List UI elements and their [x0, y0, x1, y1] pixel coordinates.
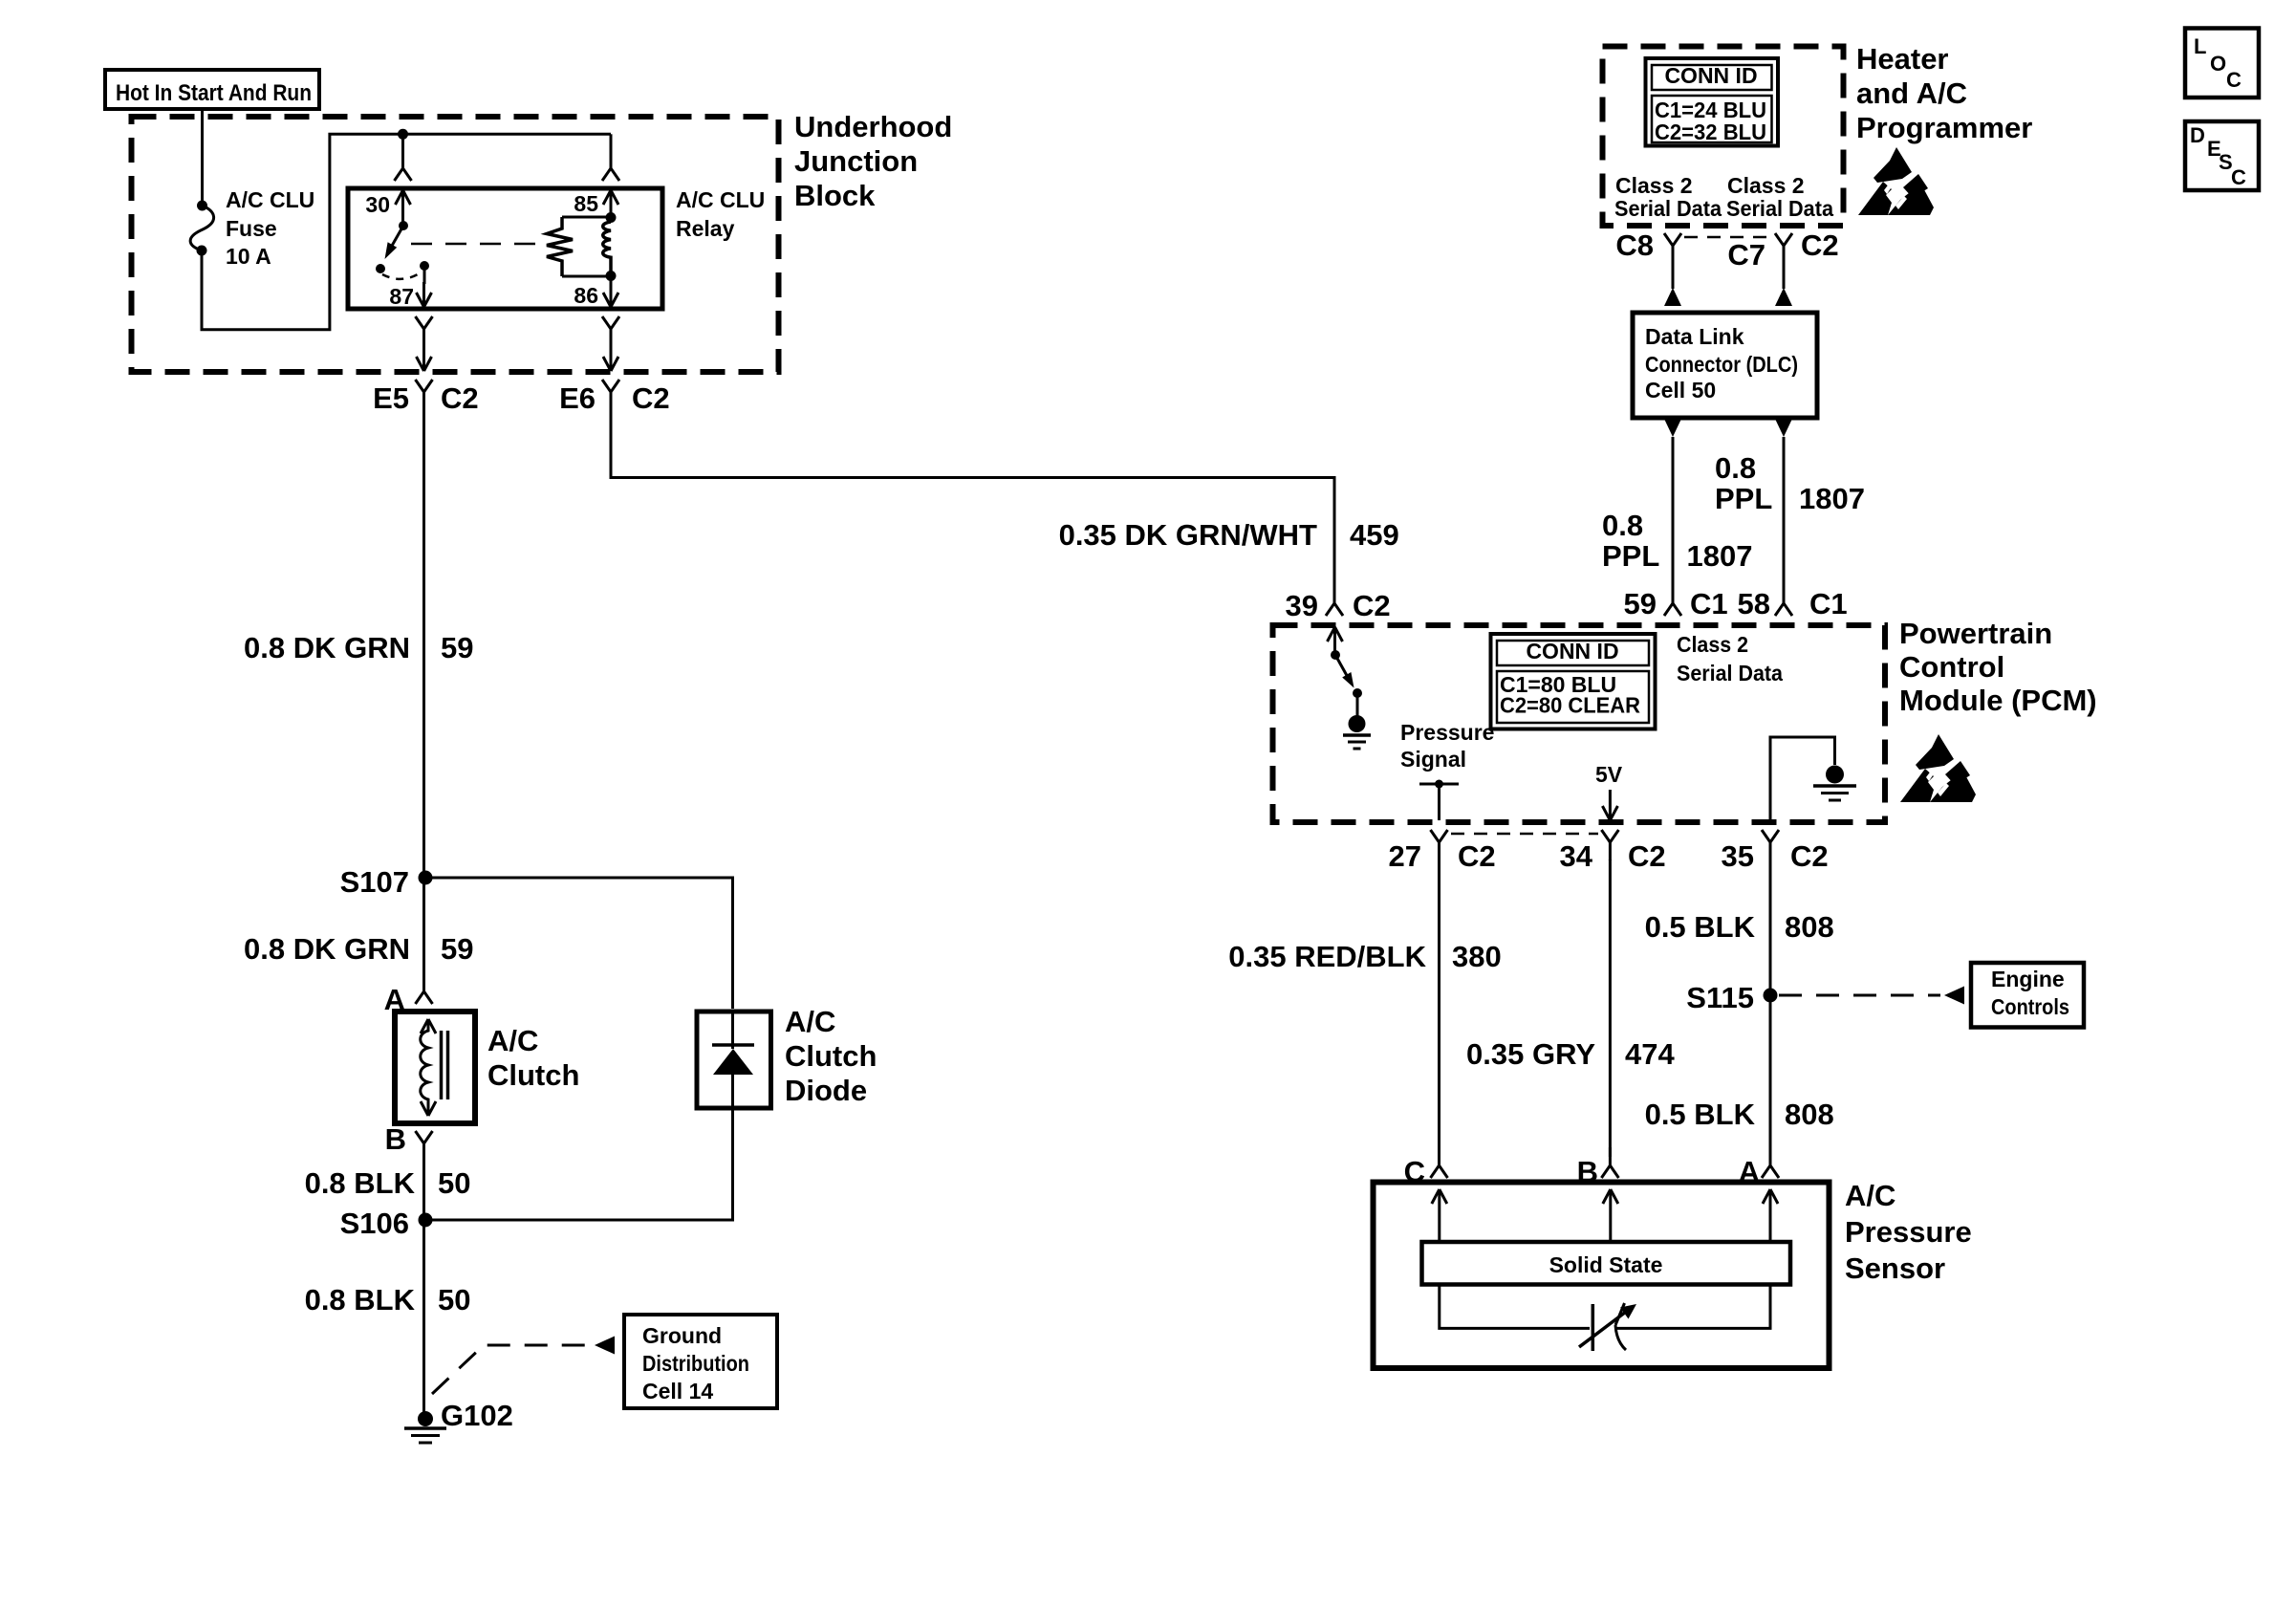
svg-text:Block: Block: [794, 179, 876, 212]
PCM pin 39 arrow: [1328, 627, 1343, 656]
connector C7/C2 glyph: [1727, 228, 1838, 272]
relay coil to pin86 wire: [610, 273, 613, 307]
label Powertrain Control Module (PCM): [1899, 617, 2097, 717]
svg-text:58: 58: [1738, 587, 1770, 620]
wire pin 86 to connector E6: [610, 347, 613, 358]
Data Link Connector box: [1633, 313, 1817, 418]
PCM pressure signal pin: [1419, 780, 1459, 821]
svg-text:380: 380: [1452, 940, 1502, 973]
svg-text:A/C: A/C: [1845, 1179, 1895, 1212]
svg-text:808: 808: [1785, 910, 1834, 944]
svg-text:Serial Data: Serial Data: [1677, 661, 1783, 685]
relay pin 30 arrow: [396, 190, 411, 226]
svg-text:Solid State: Solid State: [1549, 1252, 1663, 1277]
connector 59 C1 glyph: [1624, 585, 1728, 620]
svg-text:C2=32 BLU: C2=32 BLU: [1655, 120, 1766, 144]
svg-text:C2: C2: [1801, 228, 1839, 262]
connector arrow at junction block boundary (E6): [603, 350, 618, 371]
svg-text:C7: C7: [1727, 238, 1765, 272]
label E5 C2: [373, 381, 479, 415]
splice S107: [340, 865, 433, 899]
svg-text:Pressure: Pressure: [1400, 720, 1494, 745]
svg-text:0.8 BLK: 0.8 BLK: [305, 1166, 416, 1200]
svg-text:474: 474: [1625, 1037, 1675, 1071]
label A/C Clutch: [487, 1024, 579, 1092]
clutch pin B glyph: [385, 1122, 433, 1162]
connector E6 C2 glyph: [602, 380, 619, 410]
label Class 2 Serial Data (programmer left): [1614, 173, 1722, 221]
label Class 2 Serial Data (programmer right): [1726, 173, 1833, 221]
svg-text:C: C: [2226, 68, 2242, 92]
wire C8 to DLC: [1664, 264, 1681, 306]
svg-text:C2: C2: [1353, 589, 1391, 622]
svg-text:Module (PCM): Module (PCM): [1899, 684, 2097, 717]
wire 459 (E6 to PCM pin 39): [611, 393, 1334, 602]
PCM 5V output wire: [1602, 790, 1617, 820]
svg-text:Connector (DLC): Connector (DLC): [1645, 352, 1798, 377]
relay pin 85 arrow: [603, 190, 618, 219]
Engine Controls box: [1971, 963, 2084, 1028]
sensor pin A glyph: [1739, 1147, 1779, 1188]
svg-text:Class 2: Class 2: [1727, 173, 1805, 198]
svg-text:0.5 BLK: 0.5 BLK: [1645, 1098, 1756, 1131]
svg-text:E6: E6: [559, 381, 596, 415]
svg-text:0.35 RED/BLK: 0.35 RED/BLK: [1228, 940, 1426, 973]
svg-text:Data Link: Data Link: [1645, 324, 1744, 349]
svg-text:C2=80 CLEAR: C2=80 CLEAR: [1500, 693, 1640, 718]
sensor pin C glyph: [1404, 1147, 1448, 1188]
label 0.35 GRY 474: [1466, 1037, 1675, 1071]
junction node on feed rail: [398, 129, 408, 140]
DLC output arrowheads: [1664, 419, 1792, 437]
wire 1807 (DLC to PCM 58): [1783, 437, 1786, 585]
label 0.8 PPL 1807 (left): [1602, 509, 1752, 573]
label A/C CLU Fuse 10 A: [226, 187, 314, 269]
svg-text:0.8: 0.8: [1715, 451, 1756, 485]
fuse F (A/C CLU Fuse 10 A) symbol: [190, 201, 213, 256]
svg-text:S115: S115: [1686, 981, 1754, 1014]
connector 34 C2 glyph: [1560, 830, 1666, 873]
svg-text:CONN ID: CONN ID: [1664, 63, 1757, 88]
connector gang dashes C8-C7: [1684, 236, 1772, 239]
dashed reference arrow to Engine Controls: [1779, 987, 1964, 1005]
relay switch arm (30 to 87): [376, 221, 429, 273]
svg-text:0.8 DK GRN: 0.8 DK GRN: [244, 932, 410, 966]
svg-text:39: 39: [1286, 589, 1318, 622]
svg-text:Relay: Relay: [676, 216, 735, 241]
wire C7 to DLC: [1775, 264, 1792, 306]
ground G102: [404, 1399, 513, 1443]
svg-text:Controls: Controls: [1991, 994, 2069, 1019]
label A/C Clutch Diode: [785, 1005, 877, 1107]
svg-text:Pressure: Pressure: [1845, 1215, 1972, 1249]
svg-text:27: 27: [1389, 839, 1421, 873]
connector C8 glyph: [1615, 228, 1681, 264]
label 5V: [1595, 762, 1623, 787]
dashed reference arrow to Ground Distribution: [432, 1337, 615, 1395]
Solid State box: [1422, 1242, 1791, 1285]
svg-text:C1: C1: [1809, 587, 1848, 620]
wire S106 to clutch diode return: [432, 1108, 733, 1220]
svg-text:Fuse: Fuse: [226, 216, 277, 241]
label A/C Pressure Sensor: [1845, 1179, 1972, 1285]
A/C Clutch box: [395, 1012, 475, 1123]
svg-text:S106: S106: [340, 1207, 409, 1240]
sensor pin C internal arrow: [1432, 1189, 1447, 1242]
svg-text:Serial Data: Serial Data: [1614, 196, 1722, 221]
svg-text:Sensor: Sensor: [1845, 1251, 1945, 1285]
svg-text:35: 35: [1722, 839, 1754, 873]
svg-text:Distribution: Distribution: [642, 1351, 749, 1376]
relay coil winding: [603, 222, 611, 273]
label A/C CLU Relay: [676, 187, 765, 241]
svg-text:0.35 DK GRN/WHT: 0.35 DK GRN/WHT: [1059, 518, 1317, 552]
svg-text:A/C: A/C: [487, 1024, 538, 1057]
connector 58 C1 glyph: [1738, 585, 1848, 620]
connector 35 C2 glyph: [1722, 830, 1829, 873]
wire 808 (PCM 35 to sensor A): [1769, 859, 1772, 1157]
relay switch travel arc (dashed): [382, 272, 422, 279]
svg-text:Heater: Heater: [1856, 42, 1949, 76]
svg-text:S107: S107: [340, 865, 409, 899]
PCM CONN ID table: [1491, 634, 1656, 729]
PCM A/C request switch: [1331, 650, 1362, 716]
svg-text:0.8: 0.8: [1602, 509, 1643, 542]
svg-text:and A/C: and A/C: [1856, 76, 1967, 110]
wire 50 (clutch B to S106 to G102): [422, 1162, 425, 1413]
label 0.35 RED/BLK 380: [1228, 940, 1501, 973]
programmer CONN ID table: [1646, 58, 1779, 146]
svg-text:A/C CLU: A/C CLU: [226, 187, 314, 212]
sensor pin B internal arrow: [1603, 1189, 1618, 1242]
pin label 85: [574, 191, 598, 216]
svg-text:C2: C2: [441, 381, 479, 415]
svg-text:30: 30: [365, 192, 390, 217]
svg-text:Ground: Ground: [642, 1323, 722, 1348]
relay coil junction dots: [606, 212, 617, 281]
svg-text:B: B: [385, 1122, 406, 1156]
svg-text:Powertrain: Powertrain: [1899, 617, 2052, 650]
label Pressure Signal: [1400, 720, 1494, 772]
A/C Clutch Diode box: [697, 1012, 771, 1108]
PCM internal ground (right): [1813, 766, 1856, 801]
svg-text:1807: 1807: [1687, 539, 1753, 573]
svg-text:Control: Control: [1899, 650, 2004, 684]
wire S107 to A/C clutch diode: [432, 878, 733, 1009]
svg-text:Diode: Diode: [785, 1074, 867, 1107]
label 0.8 PPL 1807 (right): [1715, 451, 1865, 515]
svg-text:0.5 BLK: 0.5 BLK: [1645, 910, 1756, 944]
power feed box 'Hot In Start And Run': [105, 70, 319, 109]
svg-text:Clutch: Clutch: [785, 1039, 877, 1073]
variable transducer symbol: [1579, 1303, 1636, 1351]
label 0.5 BLK 808 (upper): [1645, 910, 1834, 944]
svg-text:A/C: A/C: [785, 1005, 835, 1038]
svg-text:G102: G102: [441, 1399, 513, 1432]
wire pin 87 to connector E5: [422, 347, 425, 358]
svg-text:Clutch: Clutch: [487, 1058, 579, 1092]
label 0.5 BLK 808 (lower): [1645, 1098, 1834, 1131]
connector arrow at junction block boundary (E5): [417, 350, 432, 371]
svg-text:PPL: PPL: [1602, 539, 1659, 573]
clutch pin A glyph: [384, 973, 433, 1016]
wire 1807 (DLC to PCM 59): [1672, 437, 1675, 585]
svg-text:59: 59: [441, 932, 473, 966]
svg-text:808: 808: [1785, 1098, 1834, 1131]
relay pin 86 arrow: [603, 284, 618, 307]
svg-text:L: L: [2194, 34, 2206, 58]
svg-text:Underhood: Underhood: [794, 110, 952, 143]
wire rail to relay pin 85: [602, 134, 619, 181]
wire 474 (PCM 34 to sensor B): [1609, 859, 1612, 1157]
label 0.35 DK GRN/WHT 459: [1059, 518, 1399, 552]
svg-text:50: 50: [438, 1283, 470, 1316]
diode D symbol: [712, 1012, 754, 1108]
svg-text:0.8 BLK: 0.8 BLK: [305, 1283, 416, 1316]
Heater and A/C Programmer (dashed outline): [1603, 47, 1844, 227]
svg-text:C2: C2: [1628, 839, 1666, 873]
svg-text:5V: 5V: [1595, 762, 1623, 787]
label E6 C2: [559, 381, 670, 415]
svg-text:10 A: 10 A: [226, 244, 271, 269]
A/C Pressure Sensor box: [1374, 1183, 1830, 1369]
PCM internal ground (left): [1343, 715, 1371, 749]
label 0.8 BLK 50 (upper): [305, 1166, 471, 1200]
svg-text:34: 34: [1560, 839, 1593, 873]
connector 27 C2 glyph: [1389, 830, 1496, 873]
label Heater and A/C Programmer: [1856, 42, 2032, 144]
svg-text:Signal: Signal: [1400, 747, 1466, 772]
LOC reference box: [2185, 29, 2259, 98]
svg-text:Programmer: Programmer: [1856, 111, 2032, 144]
svg-text:CONN ID: CONN ID: [1526, 639, 1618, 664]
label 0.8 BLK 50 (lower): [305, 1283, 471, 1316]
ESD sensitivity symbol (programmer): [1858, 147, 1934, 215]
connector 39 C2 glyph: [1286, 585, 1391, 622]
relay resistor top/bottom connection wires: [562, 217, 611, 276]
wire 380 (PCM 27 to sensor C): [1438, 859, 1440, 1157]
svg-text:C2: C2: [632, 381, 670, 415]
svg-text:59: 59: [441, 631, 473, 664]
svg-text:PPL: PPL: [1715, 482, 1772, 515]
svg-text:Junction: Junction: [794, 144, 918, 178]
label Class 2 Serial Data (PCM): [1677, 632, 1783, 685]
splice S115: [1686, 981, 1777, 1014]
svg-text:0.8 DK GRN: 0.8 DK GRN: [244, 631, 410, 664]
relay pin 86 connector Y: [602, 316, 619, 347]
pin label 86: [574, 283, 598, 308]
svg-text:59: 59: [1624, 587, 1657, 620]
label Underhood Junction Block: [794, 110, 952, 212]
splice S106: [340, 1207, 433, 1240]
ESD sensitivity symbol (PCM): [1900, 734, 1976, 802]
pin label 30: [365, 192, 390, 217]
svg-text:50: 50: [438, 1166, 470, 1200]
svg-text:C2: C2: [1790, 839, 1829, 873]
A/C clutch core bars: [442, 1031, 448, 1099]
svg-text:459: 459: [1350, 518, 1399, 552]
connector gang dashes 27-34: [1451, 833, 1598, 836]
connector E5 C2 glyph: [416, 380, 433, 410]
sensor pin A internal arrow: [1763, 1189, 1778, 1242]
svg-text:86: 86: [574, 283, 598, 308]
svg-text:1807: 1807: [1799, 482, 1865, 515]
relay pin 87 connector Y: [416, 316, 433, 347]
svg-text:C8: C8: [1615, 228, 1654, 262]
label 0.8 DK GRN 59 (upper): [244, 631, 473, 664]
DESC reference box: [2185, 121, 2259, 190]
pin label 87: [389, 284, 414, 309]
sensor pin B glyph: [1577, 1147, 1619, 1188]
relay resistor (parallel with coil): [547, 217, 573, 276]
svg-text:Serial Data: Serial Data: [1726, 196, 1833, 221]
svg-text:87: 87: [389, 284, 414, 309]
svg-text:Engine: Engine: [1991, 967, 2065, 991]
Underhood Junction Block (dashed outline): [132, 117, 779, 372]
relay K (A/C CLU Relay) outline: [348, 188, 662, 309]
relay actuating linkage (dashed): [411, 243, 549, 246]
svg-text:0.35 GRY: 0.35 GRY: [1466, 1037, 1595, 1071]
svg-text:C1: C1: [1690, 587, 1728, 620]
sensor transducer loop: [1440, 1285, 1770, 1329]
wire rail to relay pin 30: [395, 134, 412, 181]
wire fuse to relay feed rail (left loop): [202, 134, 611, 329]
svg-text:C2: C2: [1458, 839, 1496, 873]
svg-text:Cell 14: Cell 14: [642, 1379, 713, 1403]
svg-text:85: 85: [574, 191, 598, 216]
svg-text:C: C: [2231, 165, 2246, 189]
svg-text:A/C CLU: A/C CLU: [676, 187, 765, 212]
svg-text:D: D: [2190, 123, 2205, 147]
relay pin 87 wire and arrow: [417, 266, 432, 307]
Powertrain Control Module (dashed outline): [1273, 625, 1886, 822]
wire 59 (E5 to S107 to A/C clutch): [422, 393, 425, 981]
svg-text:Cell 50: Cell 50: [1645, 378, 1716, 402]
svg-text:Class 2: Class 2: [1615, 173, 1693, 198]
label 0.8 DK GRN 59 (lower): [244, 932, 473, 966]
wire from Hot box to A/C CLU Fuse: [201, 109, 204, 202]
PCM pin 35 internal wire: [1770, 737, 1835, 820]
svg-text:Class 2: Class 2: [1677, 632, 1748, 657]
Ground Distribution Cell 14 box: [624, 1315, 777, 1408]
A/C clutch coil symbol: [421, 1019, 436, 1116]
svg-text:Hot In Start And Run: Hot In Start And Run: [116, 80, 312, 106]
svg-text:O: O: [2210, 52, 2226, 76]
svg-text:E5: E5: [373, 381, 409, 415]
